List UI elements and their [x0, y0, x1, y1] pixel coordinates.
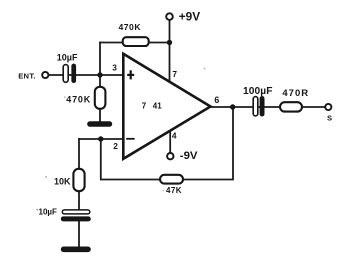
svg-text:470K: 470K [66, 95, 91, 105]
svg-text:6: 6 [214, 95, 219, 105]
svg-text:4: 4 [172, 130, 177, 140]
svg-text:7: 7 [142, 102, 147, 111]
svg-text:2: 2 [113, 141, 118, 151]
svg-text:7: 7 [172, 69, 177, 79]
svg-text:+9V: +9V [179, 10, 200, 24]
svg-text:ENT.: ENT. [18, 71, 36, 80]
svg-text:10µF: 10µF [39, 208, 58, 217]
svg-text:470K: 470K [119, 22, 142, 32]
svg-text:10µF: 10µF [57, 52, 78, 62]
svg-text:41: 41 [153, 102, 162, 111]
svg-text:S: S [327, 113, 332, 122]
svg-text:3: 3 [112, 62, 117, 72]
svg-text:10K: 10K [54, 177, 71, 187]
svg-text:47K: 47K [166, 186, 182, 195]
svg-text:-9V: -9V [180, 150, 198, 162]
svg-text:100µF: 100µF [243, 86, 273, 97]
svg-text:470R: 470R [282, 88, 309, 99]
